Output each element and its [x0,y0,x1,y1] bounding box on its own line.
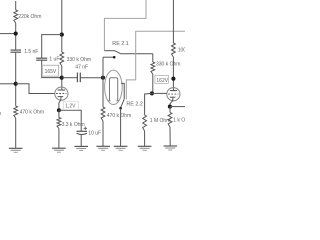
wire: coupling node down to R4 [102,78,104,107]
svg-text:470 k Ohm: 470 k Ohm [20,110,44,116]
wire: branch to C2 [42,35,62,59]
svg-text:470 k Ohm: 470 k Ohm [107,113,131,119]
relay RE 2.1 gray feed path [104,0,146,51]
resistor R5 330 k Ohm [151,62,155,74]
node: junction dot grid V3 [150,91,154,95]
wire: rail 3 from top [172,0,174,43]
resistor R4 470 k Ohm [101,107,105,121]
svg-text:1,2V: 1,2V [65,104,76,110]
tube V2 envelope (ellipse) [105,70,123,104]
switch RE2.1 lower contact with dot [103,56,115,58]
wire: R4 to ground [102,121,104,146]
svg-text:162V: 162V [156,78,168,84]
svg-text:47 nF: 47 nF [75,64,88,70]
voltage box 1,2V [63,101,78,109]
resistor R7 100 k Ohm [172,43,176,57]
svg-text:330 k Ohm: 330 k Ohm [156,61,180,67]
svg-text:1 k Ohm: 1 k Ohm [173,118,185,124]
capacitor C1 1.5 nF [11,49,22,51]
wire: R6 to ground [144,131,146,146]
capacitor C4 10 uF electrolytic [77,130,88,132]
ground: under R4 [96,145,110,147]
capacitor C2 1 uF [36,57,47,59]
svg-text:1 M Ohm: 1 M Ohm [150,118,171,124]
ground: under R6 [138,145,152,147]
wire: R9 to ground [58,129,60,149]
node: junction dot cathode V1 [57,108,61,112]
voltage box 165V [42,65,58,76]
wire: R5 bottom to grid node V3 [152,74,154,93]
resistor R2 470 k Ohm [14,106,18,118]
svg-text:3.3 k Ohm: 3.3 k Ohm [62,122,85,128]
node: junction dot coupling node [101,76,105,80]
resistor R8 1 k Ohm [168,112,172,127]
wire: R3 bottom to tube V1 anode [61,66,63,90]
wire: R1 bottom to C1 top [15,23,17,50]
wire: rail 2 from top [61,0,63,52]
switch RE2.1 top contact [104,50,114,52]
ground: under RE2.2 [114,145,128,147]
svg-text:RE 2.2: RE 2.2 [126,102,142,108]
wire: RE2.1 common to R5 [121,53,153,55]
tube V1 triode [55,87,68,100]
capacitor C3 47 nF [76,73,78,83]
wire: left net at lower junction [0,83,16,85]
switch RE2.2 contact dot [119,107,122,110]
wire: R7 to tube V3 anode [172,57,174,91]
svg-text:m: m [0,111,1,117]
svg-text:10 uF: 10 uF [88,131,101,137]
wire: C2 bottom to node under R3 (mostly behind 165V box) [42,60,62,77]
voltage box 162V [155,75,169,83]
svg-text:330 k Ohm: 330 k Ohm [67,57,91,63]
wire: node to C3 [62,77,78,79]
resistor R1 220k Ohm [14,10,18,23]
ground: under R9 [52,147,66,149]
wire: branch down to R6 [145,93,152,115]
ground: under R2 [9,147,23,149]
wire: V1 cathode lead [59,97,61,111]
wire: rail above R1 [15,1,17,10]
wire: RE2.2 contact to ground [120,108,122,146]
wire: R8 to ground [169,127,171,146]
wire: R2 to ground [15,118,17,148]
wire: C3 to node at relay chain [80,77,103,79]
resistor R9 3.3 k Ohm [57,118,61,129]
svg-text:100 k Ohm: 100 k Ohm [178,48,185,54]
switch RE2.2 blade [121,99,125,108]
node: junction dot anode V1 [60,76,64,80]
wire: stub from ellipse to RE2.2 [121,83,124,99]
ground: under C4 [74,145,88,147]
ground: under R8 [164,145,178,147]
tube V3 triode [167,88,180,101]
wire: cathode V3 net to right edge [170,106,185,108]
wire: lower contact down to coupling node [102,57,104,77]
tube V2 internal electrode (staple) [110,78,118,101]
svg-text:1.5 nF: 1.5 nF [24,49,38,55]
wire: grid node to tube V3 [152,92,167,94]
svg-text:1 uF: 1 uF [49,57,59,63]
wire: grid feed to tube V1 (step) [16,84,55,94]
relay RE 2.2 gray feed path [126,31,185,99]
node: junction dot left rail upper [14,32,18,36]
wire: C1 bottom through lower junction down to R2 [15,52,17,106]
wire: C4 to ground [80,135,82,147]
svg-text:220k Ohm: 220k Ohm [18,14,41,20]
node: junction dot left rail lower [14,82,18,86]
node: junction dot anode V3 [171,77,175,81]
wire: cathode V1 down to R9 [58,110,60,117]
wire: left input net at top [0,33,16,35]
svg-text:165V: 165V [45,69,57,75]
svg-text:RE 2.1: RE 2.1 [112,41,128,47]
wire: cathode V1 to C4 branch [59,110,81,131]
wire: V3 cathode lead [170,97,173,106]
switch RE2.1 blade [115,51,121,54]
node: junction dot rail2 top [60,33,64,37]
resistor R6 1 M Ohm [143,115,147,131]
resistor R3 330 k Ohm [60,52,64,66]
node: junction dot cathode V3 [168,105,172,109]
